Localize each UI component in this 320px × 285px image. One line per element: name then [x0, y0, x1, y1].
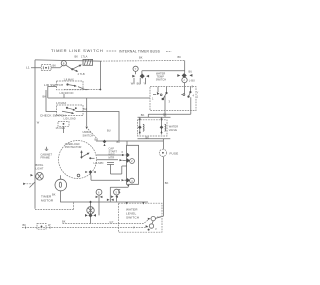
junction motor cap tap	[103, 140, 107, 146]
switch unbalance	[83, 98, 111, 139]
svg-text:BK: BK	[75, 54, 79, 58]
terminal bus circle A	[96, 189, 103, 215]
junction valve left tap	[138, 117, 142, 134]
svg-text:1TLA: 1TLA	[81, 54, 88, 58]
switch timer line switch contacts	[66, 54, 88, 75]
svg-text:INTERNAL TIMER BUSS: INTERNAL TIMER BUSS	[119, 50, 161, 54]
svg-text:BU: BU	[189, 70, 193, 74]
svg-text:BK: BK	[141, 113, 145, 117]
svg-text:Y: Y	[135, 67, 137, 71]
switch lid switch S1	[44, 78, 88, 96]
switch water level	[119, 202, 164, 232]
svg-text:BK: BK	[165, 181, 169, 185]
svg-text:V: V	[133, 226, 135, 230]
svg-text:SWITCH: SWITCH	[126, 216, 139, 220]
svg-text:Y: Y	[197, 91, 199, 95]
terminal B circled	[61, 61, 66, 66]
svg-text:TIMER LINE SWITCH: TIMER LINE SWITCH	[51, 48, 104, 53]
wire lid switch upper dashed	[64, 89, 100, 91]
connector check switch block	[56, 122, 70, 134]
svg-text:BU: BU	[107, 129, 111, 133]
wire buss tap drops	[131, 78, 146, 86]
svg-text:BK: BK	[62, 220, 66, 224]
svg-text:VALVE: VALVE	[169, 128, 177, 132]
svg-text:LID SW NO: LID SW NO	[60, 91, 74, 95]
wire lid switch output y98	[48, 97, 150, 99]
wire bottom buss	[61, 201, 149, 203]
svg-text:4 TLB: 4 TLB	[78, 72, 85, 76]
wire motor buss y141	[96, 140, 164, 142]
svg-text:BK: BK	[139, 55, 143, 59]
wire top buss solid left	[35, 60, 100, 61]
wire valve bottom	[138, 138, 171, 140]
terminal bus circle B	[107, 189, 120, 201]
svg-text:V: V	[155, 227, 157, 231]
wire L1 lead	[31, 66, 62, 68]
ground cabinet frame	[23, 147, 52, 188]
connector motor switch block	[110, 145, 138, 201]
junction motor bottom right	[85, 170, 95, 174]
switch motor contact lower	[91, 174, 130, 183]
svg-text:BK: BK	[146, 135, 150, 139]
lamp bowl light	[36, 163, 44, 180]
wire water level lead B	[22, 226, 148, 229]
solenoid coil left	[143, 124, 144, 131]
wire lid switch common drop	[63, 94, 65, 98]
svg-text:GY: GY	[110, 220, 114, 224]
svg-text:Y: Y	[143, 82, 145, 86]
wire buss to motor switch box	[126, 141, 128, 145]
wire left rail bottom dashed	[35, 202, 74, 210]
title INTERNAL TIMER BUSS	[107, 50, 172, 60]
wire top buss dashed right	[100, 60, 184, 63]
wire valve feed right	[148, 111, 191, 117]
svg-text:PROTECTOR: PROTECTOR	[65, 145, 82, 149]
wire buss tap corner	[136, 71, 185, 75]
switch motor contact upper	[97, 153, 130, 157]
junction right buss end	[177, 70, 192, 79]
fuse F1	[159, 139, 178, 157]
svg-text:BU: BU	[137, 82, 141, 86]
solenoid coil right	[165, 124, 166, 131]
svg-text:BK: BK	[53, 64, 57, 68]
svg-text:CHECK SWITCH: CHECK SWITCH	[40, 113, 66, 117]
svg-text:SWITCH: SWITCH	[156, 78, 167, 82]
wire check switch left leg	[46, 90, 57, 112]
svg-text:MOTOR: MOTOR	[41, 198, 54, 202]
label water valve	[169, 124, 178, 131]
svg-text:L-BU: L-BU	[189, 79, 195, 83]
svg-text:LID LOAD: LID LOAD	[64, 117, 76, 121]
svg-text:LO-SPD: LO-SPD	[94, 161, 104, 165]
wire check switch output	[76, 112, 120, 142]
enclosure water valve	[138, 120, 168, 136]
switch motor contact lo-spd	[94, 158, 130, 165]
switch check switch S2	[40, 101, 83, 120]
wire temp switch drops	[165, 96, 191, 111]
wire left rail	[34, 60, 36, 209]
svg-text:BU: BU	[83, 107, 87, 111]
label cap start winding	[109, 147, 118, 160]
wire lid switch left bracket	[48, 87, 57, 99]
wire valve feed left	[164, 111, 166, 117]
motor pump	[85, 201, 96, 224]
wire water level lead A	[63, 219, 150, 223]
junction buss tap	[132, 74, 149, 79]
svg-text:L1: L1	[26, 66, 30, 70]
svg-text:FUSE: FUSE	[170, 152, 179, 156]
capacitor C1	[107, 163, 114, 175]
svg-text:BK: BK	[117, 140, 121, 144]
wire top buss right drop	[184, 61, 186, 74]
svg-text:B: B	[63, 61, 65, 65]
svg-text:LIGHT: LIGHT	[36, 166, 44, 170]
wire step to capacitor	[111, 166, 128, 174]
svg-text:BK: BK	[163, 112, 167, 116]
svg-text:WATER: WATER	[169, 124, 178, 128]
svg-text:BK: BK	[52, 193, 56, 197]
motor timer motor	[41, 175, 67, 202]
junction valve right tap	[160, 117, 164, 134]
svg-text:BK: BK	[178, 55, 182, 59]
connector bottom left block	[23, 223, 52, 229]
svg-text:SWITCH: SWITCH	[83, 133, 94, 137]
wire fuse drop	[162, 156, 164, 216]
svg-text:FRAME: FRAME	[41, 156, 51, 160]
svg-text:UNBAL: UNBAL	[83, 130, 92, 134]
svg-text:1.8 MAX: 1.8 MAX	[56, 101, 67, 105]
background paper	[0, 0, 218, 285]
wire TLA to lid switch column	[99, 61, 101, 89]
connector P1	[41, 65, 51, 71]
switch water temp switch	[150, 71, 196, 110]
motor main dashed	[59, 141, 97, 179]
svg-text:BK: BK	[23, 223, 27, 227]
node circled Y buss tap	[133, 66, 138, 71]
wire valve top	[138, 116, 171, 118]
terminal J circled right	[182, 77, 195, 86]
svg-text:MTR: MTR	[109, 155, 115, 159]
connector TLA block	[83, 59, 93, 65]
